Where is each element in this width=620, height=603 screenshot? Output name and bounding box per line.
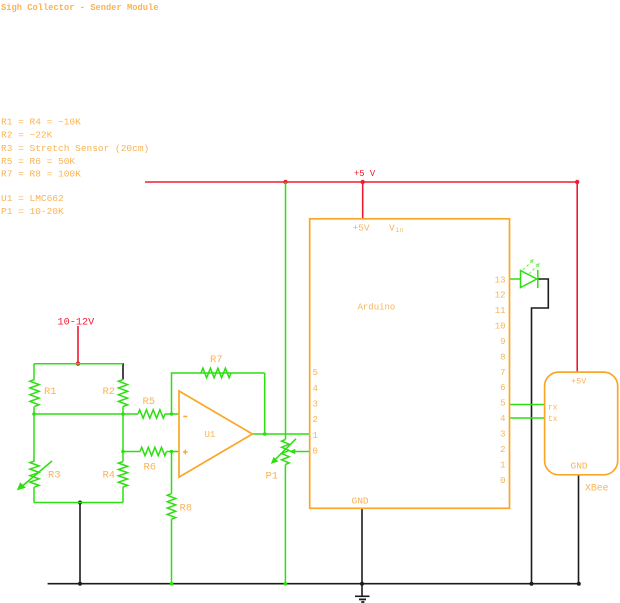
svg-text:10: 10 xyxy=(495,322,506,332)
svg-text:2: 2 xyxy=(500,445,505,455)
svg-text:3: 3 xyxy=(313,400,318,410)
svg-text:13: 13 xyxy=(495,275,506,285)
svg-text:rx: rx xyxy=(548,404,558,413)
svg-text:1: 1 xyxy=(500,460,505,470)
svg-text:U1 = LMC662: U1 = LMC662 xyxy=(1,193,64,204)
svg-text:R7: R7 xyxy=(210,354,223,366)
svg-text:R1 = R4 = ~10K: R1 = R4 = ~10K xyxy=(1,117,81,128)
svg-text:R7 = R8 = 100K: R7 = R8 = 100K xyxy=(1,169,81,180)
svg-text:4: 4 xyxy=(313,384,318,394)
svg-text:0: 0 xyxy=(500,476,505,486)
svg-text:GND: GND xyxy=(352,496,369,507)
svg-text:Sigh Collector - Sender Module: Sigh Collector - Sender Module xyxy=(1,3,159,13)
svg-text:5: 5 xyxy=(500,399,505,409)
svg-text:1: 1 xyxy=(313,431,318,441)
svg-text:R8: R8 xyxy=(180,503,193,515)
svg-text:U1: U1 xyxy=(205,430,216,440)
svg-text:R5: R5 xyxy=(143,396,156,408)
svg-text:XBee: XBee xyxy=(585,483,609,494)
svg-text:in: in xyxy=(396,227,404,234)
svg-text:Arduino: Arduino xyxy=(358,303,396,313)
svg-text:3: 3 xyxy=(500,430,505,440)
svg-text:P1 = 10-20K: P1 = 10-20K xyxy=(1,206,64,217)
svg-text:R3 = Stretch Sensor (20cm): R3 = Stretch Sensor (20cm) xyxy=(1,143,149,154)
svg-text:12: 12 xyxy=(495,291,506,301)
svg-text:P1: P1 xyxy=(266,471,279,483)
svg-text:11: 11 xyxy=(495,306,506,316)
svg-text:6: 6 xyxy=(500,383,505,393)
svg-text:R2: R2 xyxy=(103,386,116,398)
svg-text:+5 V: +5 V xyxy=(354,169,376,179)
svg-text:V: V xyxy=(389,223,395,234)
svg-text:R4: R4 xyxy=(103,470,116,482)
svg-text:R2 = ~22K: R2 = ~22K xyxy=(1,130,53,141)
svg-text:4: 4 xyxy=(500,414,505,424)
svg-text:+5V: +5V xyxy=(353,223,370,234)
svg-text:R5 = R6 = 50K: R5 = R6 = 50K xyxy=(1,156,75,167)
svg-text:R3: R3 xyxy=(48,470,61,482)
svg-text:7: 7 xyxy=(500,368,505,378)
svg-text:tx: tx xyxy=(548,415,558,424)
svg-text:9: 9 xyxy=(500,337,505,347)
svg-text:+5V: +5V xyxy=(571,377,587,387)
svg-text:10-12V: 10-12V xyxy=(58,318,96,329)
svg-text:R1: R1 xyxy=(44,386,57,398)
svg-text:8: 8 xyxy=(500,352,505,362)
svg-text:2: 2 xyxy=(313,415,318,425)
svg-text:GND: GND xyxy=(571,461,588,472)
svg-text:5: 5 xyxy=(313,368,318,378)
svg-text:R6: R6 xyxy=(144,462,157,474)
svg-text:0: 0 xyxy=(313,447,318,457)
